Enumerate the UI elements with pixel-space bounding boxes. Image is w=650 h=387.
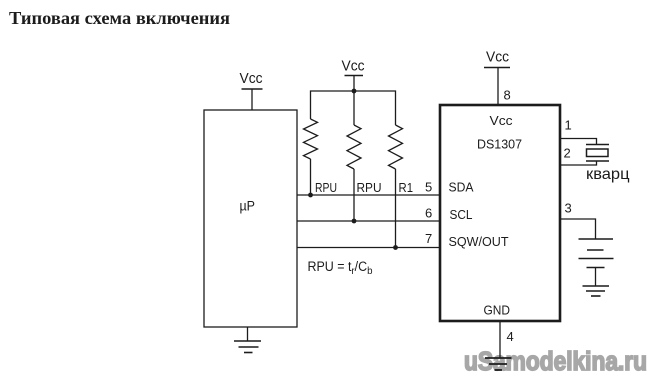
node junction SDA: [308, 193, 313, 198]
svg-text:Vcc: Vcc: [490, 113, 514, 128]
svg-text:RPU: RPU: [315, 180, 337, 195]
resistor RPU (left, SDA pull-up): [304, 119, 318, 159]
node junction SQW: [393, 245, 398, 250]
svg-text:Vcc: Vcc: [342, 58, 365, 75]
svg-text:5: 5: [425, 180, 432, 195]
ground (uP) stem: [247, 327, 249, 341]
resistor R1 (SQW/OUT pull-up): [389, 125, 403, 169]
wire Vcc stem to uP: [251, 89, 253, 110]
node junction Vcc rail: [352, 89, 357, 94]
wire pin 1 stub: [561, 139, 597, 145]
power Vcc symbol (DS1307) bar: [484, 67, 510, 69]
svg-text:8: 8: [504, 88, 511, 103]
ground (battery) bars: [583, 285, 610, 287]
svg-text:3: 3: [565, 201, 572, 216]
wire Vcc stem to pin 8: [497, 68, 499, 106]
wire RPU left bottom lead: [310, 159, 312, 195]
svg-text:µP: µP: [240, 198, 256, 214]
svg-text:RPU: RPU: [357, 180, 382, 195]
wire SCL bus (uP to DS1307 pin6): [297, 220, 439, 222]
resistor RPU (middle, SCL pull-up): [347, 125, 361, 169]
wire pull-up top rail: [311, 91, 396, 125]
svg-text:SDA: SDA: [449, 180, 474, 195]
battery BT1 plates: [579, 238, 614, 240]
wire R1 bottom lead: [395, 169, 397, 248]
power Vcc symbol (uP) bar: [242, 88, 263, 90]
wire Vcc stem to rail: [353, 76, 355, 126]
svg-text:Vcc: Vcc: [486, 49, 509, 66]
wire pin 2 stub: [561, 161, 597, 165]
op block uP box: [204, 110, 297, 327]
svg-text:SCL: SCL: [450, 207, 473, 222]
svg-text:Типовая схема включения: Типовая схема включения: [9, 8, 230, 28]
IC U1 DS1307 box: [440, 105, 560, 321]
crystal Y1 plates: [586, 144, 609, 146]
svg-text:DS1307: DS1307: [477, 137, 522, 152]
crystal Y1 body: [587, 149, 609, 157]
node junction SCL: [352, 219, 357, 224]
svg-text:uSamodelkina.ru: uSamodelkina.ru: [464, 348, 647, 376]
wire battery to ground: [595, 268, 597, 287]
ground (uP) bars: [234, 340, 261, 342]
svg-text:R1: R1: [399, 180, 414, 195]
svg-text:6: 6: [425, 206, 432, 221]
power Vcc symbol (pull-ups) bar: [345, 75, 364, 77]
svg-text:4: 4: [507, 329, 514, 344]
svg-text:кварц: кварц: [586, 166, 630, 183]
svg-text:2: 2: [564, 146, 571, 161]
svg-text:7: 7: [425, 231, 432, 246]
wire GND pin 4 stem: [499, 321, 501, 358]
wire RPU middle bottom lead: [353, 169, 355, 221]
svg-text:Vcc: Vcc: [240, 70, 263, 87]
wire pin 3 stub: [561, 219, 596, 239]
svg-text:SQW/OUT: SQW/OUT: [449, 234, 509, 249]
svg-text:GND: GND: [484, 303, 511, 318]
ground (DS1307 GND) bars: [485, 357, 512, 359]
svg-text:1: 1: [565, 118, 572, 133]
wire SDA bus (uP to DS1307 pin5): [297, 194, 439, 196]
wire SQW/OUT bus (uP to DS1307 pin7): [297, 247, 439, 249]
